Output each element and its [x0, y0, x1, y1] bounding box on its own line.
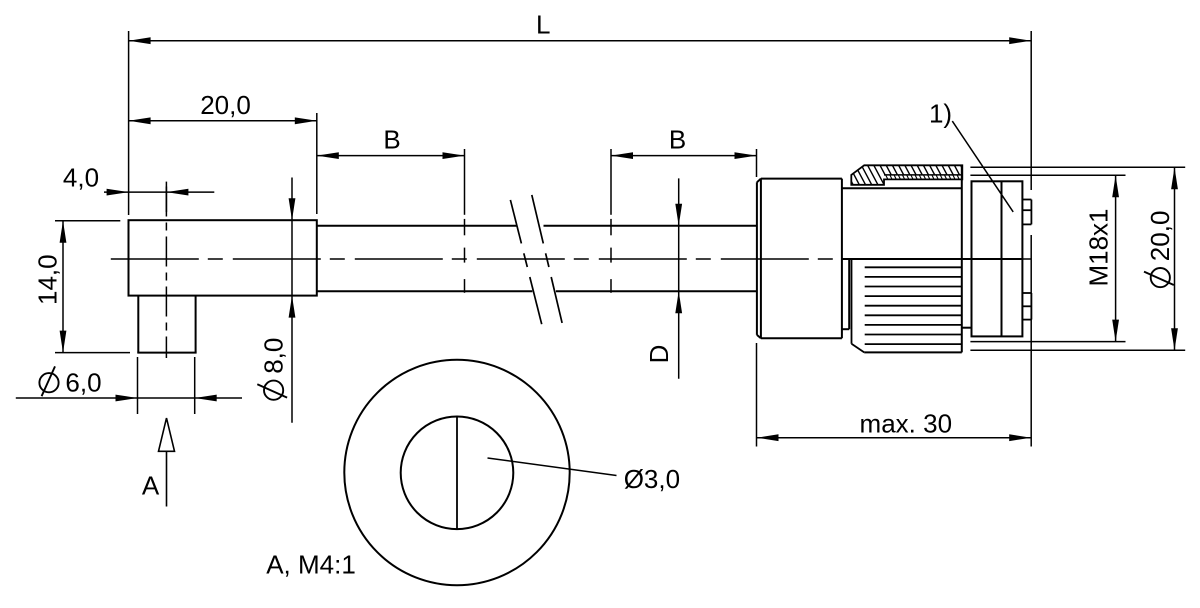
extension line connector front — [1030, 31, 1032, 447]
head bottom cylinder — [137, 296, 196, 353]
svg-text:A, M4:1: A, M4:1 — [266, 550, 356, 580]
dimension D — [644, 178, 682, 378]
svg-text:20,0: 20,0 — [1145, 211, 1175, 262]
svg-text:Ø3,0: Ø3,0 — [624, 464, 680, 494]
dimension 14,0 — [33, 221, 67, 353]
break mark left — [510, 200, 541, 324]
connector front body — [972, 181, 1023, 336]
nut section hatching — [840, 160, 986, 190]
extension line cylinder axis — [165, 182, 167, 212]
half-section division line — [842, 258, 1023, 260]
bottom cylinder axis centerline — [165, 187, 167, 359]
dimension 20,0 — [129, 90, 317, 124]
break mark right — [532, 195, 562, 323]
svg-text:1): 1) — [929, 98, 952, 128]
view direction arrow A — [142, 418, 175, 507]
svg-text:max. 30: max. 30 — [860, 408, 953, 438]
tube bottom edge — [317, 290, 757, 292]
contact pins upper — [1022, 200, 1031, 225]
svg-text:B: B — [669, 125, 686, 155]
extension lines Ø20,0 — [970, 167, 1185, 350]
knurl step line — [962, 327, 972, 329]
dimension B right — [611, 125, 757, 159]
svg-text:M18x1: M18x1 — [1084, 208, 1114, 286]
dimension 4,0 — [63, 162, 214, 195]
coupling nut body — [842, 165, 962, 352]
extension lines M18x1 — [970, 175, 1125, 341]
svg-text:14,0: 14,0 — [33, 254, 63, 305]
detail view inner circle — [401, 417, 514, 530]
svg-text:L: L — [536, 10, 550, 40]
svg-text:6,0: 6,0 — [65, 368, 101, 398]
label A, M4:1 — [266, 550, 356, 580]
dimension B left — [317, 125, 465, 159]
svg-text:D: D — [644, 345, 674, 364]
extension lines 14,0 — [55, 221, 130, 353]
extension line B2 left — [610, 149, 612, 293]
main centerline — [111, 258, 1031, 260]
label 1) with leader — [929, 98, 1013, 212]
extension line head collar — [316, 113, 318, 214]
contact pins lower — [1022, 293, 1031, 320]
extension lines Ø6,0 — [138, 357, 195, 414]
svg-text:4,0: 4,0 — [63, 162, 99, 192]
knurl ribs — [842, 259, 962, 352]
extension line head left face — [128, 31, 130, 215]
svg-text:8,0: 8,0 — [259, 338, 289, 374]
dimension L — [129, 10, 1032, 45]
connector sleeve — [757, 179, 842, 339]
detail view outer circle — [344, 360, 569, 585]
dimension Ø20,0 — [1144, 167, 1178, 350]
probe head body — [129, 220, 317, 295]
dimension M18x1 — [1084, 175, 1119, 341]
extension line B1 right — [464, 149, 466, 293]
dimension Ø6,0 — [16, 366, 242, 401]
svg-text:A: A — [142, 470, 160, 500]
svg-text:B: B — [383, 125, 400, 155]
dimension max. 30 — [757, 408, 1032, 441]
svg-text:20,0: 20,0 — [200, 90, 251, 120]
detail slot line — [456, 417, 458, 530]
label Ø3,0 with leader — [488, 458, 681, 494]
tube top edge — [317, 225, 757, 227]
dimension Ø8,0 — [257, 178, 295, 423]
extension line tube end — [756, 149, 758, 447]
